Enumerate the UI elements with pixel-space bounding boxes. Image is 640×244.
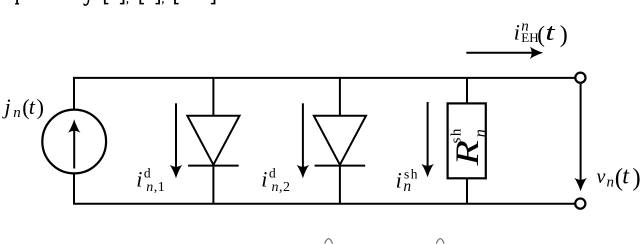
svg-text:i: i — [136, 167, 142, 192]
svg-text:v: v — [597, 166, 606, 188]
svg-text:n: n — [13, 105, 21, 121]
cropped equation fragment: left brace top — [325, 239, 333, 244]
label i^n_EH(t) — [514, 18, 568, 48]
cropped comma 1 — [126, 1, 128, 5]
svg-text:n: n — [471, 129, 490, 137]
label i^d_n,1 — [136, 166, 165, 195]
wire bottom rail with left corner up to current source — [74, 174, 575, 203]
svg-text:j: j — [2, 94, 11, 119]
diode D1 triangle — [187, 116, 239, 165]
cropped citation bracket [ bottom 3 — [174, 0, 179, 4]
svg-text:t: t — [622, 163, 630, 189]
cropped citation bracket [ bottom 1 — [104, 0, 109, 4]
svg-text:): ) — [37, 95, 44, 120]
wire diode D1 branch bottom — [212, 166, 214, 204]
cropped comma 2 — [162, 1, 164, 5]
resistor R_n^sh (box) — [448, 103, 486, 178]
label R_n^sh (rotated 90) — [449, 127, 490, 166]
svg-text:n: n — [607, 175, 615, 191]
arrow i_EH (to the right, above top rail) — [466, 52, 533, 54]
svg-text:sh: sh — [449, 127, 465, 143]
wire top rail with left corner down to current source — [74, 78, 575, 109]
label i^d_n,2 — [261, 166, 290, 195]
svg-text:i: i — [514, 20, 520, 45]
svg-text:EH: EH — [521, 30, 538, 45]
node: top output terminal (open circle) — [575, 73, 585, 83]
cropped citation bracket [ bottom 2 — [139, 0, 144, 4]
svg-text:(: ( — [537, 22, 545, 47]
wire diode D2 branch bottom — [339, 166, 341, 204]
current source J (circle) — [42, 110, 106, 174]
current source arrow (upward) — [73, 130, 75, 169]
svg-text:i: i — [396, 168, 402, 193]
wire resistor branch bottom — [466, 178, 468, 204]
svg-text:d: d — [144, 166, 151, 181]
svg-text:i: i — [261, 167, 267, 192]
cropped previous text line: descender of p — [15, 0, 19, 5]
label jn(t) — [2, 94, 44, 121]
voltage arrow v_n(t) (down, right side) — [580, 84, 582, 180]
wire diode D1 branch top — [212, 77, 214, 115]
diode D2 triangle — [314, 116, 366, 165]
cropped citation bracket ] bottom 2 — [156, 0, 161, 4]
label i^sh_n — [396, 166, 419, 195]
diode D1 cathode bar — [188, 165, 239, 167]
wire resistor branch top — [466, 77, 468, 103]
cropped citation bracket ] bottom 1 — [120, 0, 125, 4]
svg-text:): ) — [632, 165, 640, 192]
svg-text:t: t — [29, 94, 36, 119]
cropped equation fragment: right brace top — [436, 239, 444, 244]
cropped citation bracket ] bottom 3 — [211, 0, 216, 4]
svg-text:t: t — [545, 19, 555, 45]
svg-text:n: n — [403, 178, 411, 195]
current arrow i_n,1 (down) — [175, 103, 177, 167]
svg-text:d: d — [269, 166, 276, 181]
wire diode D2 branch top — [339, 77, 341, 115]
diode D2 cathode bar — [315, 165, 366, 167]
label v_n(t) — [597, 163, 640, 191]
svg-text:): ) — [560, 22, 568, 48]
current arrow i_n,2 (down) — [302, 103, 304, 167]
cropped previous text line: descender tail of y — [84, 0, 89, 5]
svg-text:n,1: n,1 — [146, 180, 165, 195]
current arrow i_n^sh (down) — [427, 102, 429, 166]
node: bottom output terminal (open circle) — [575, 199, 585, 209]
svg-text:n,2: n,2 — [272, 180, 291, 195]
